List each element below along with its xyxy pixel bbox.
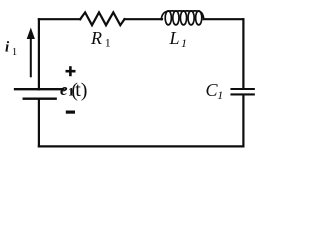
left wire lower [38, 99, 40, 146]
label L1 [169, 28, 188, 50]
voltage source e1 top plate [15, 88, 64, 90]
label R1 [90, 28, 111, 50]
voltage source e1 bottom plate [24, 98, 56, 100]
label e1(t) [60, 79, 87, 101]
capacitor C1 bottom plate [232, 93, 254, 95]
left wire upper [38, 19, 40, 89]
label C1 [206, 80, 224, 102]
wire top-right segment [204, 18, 244, 20]
svg-text:e: e [60, 80, 68, 99]
svg-text:1: 1 [217, 88, 223, 102]
right wire lower [242, 95, 244, 147]
right wire upper [242, 19, 244, 89]
svg-text:1: 1 [181, 36, 187, 50]
svg-text:1: 1 [12, 46, 17, 58]
label i1 [5, 39, 17, 57]
current arrow i1 [27, 28, 35, 78]
plus sign [66, 66, 76, 76]
svg-text:R: R [90, 28, 102, 48]
svg-text:): ) [81, 79, 88, 101]
bottom wire [39, 145, 244, 147]
minus sign [66, 110, 75, 113]
wire between R1 and L1 [125, 18, 163, 20]
svg-text:i: i [5, 39, 10, 55]
svg-text:L: L [169, 28, 180, 48]
svg-text:1: 1 [105, 36, 111, 50]
resistor R1 [80, 12, 124, 25]
inductor L1 [161, 11, 204, 25]
wire top-left segment [39, 18, 80, 20]
capacitor C1 top plate [232, 88, 254, 90]
